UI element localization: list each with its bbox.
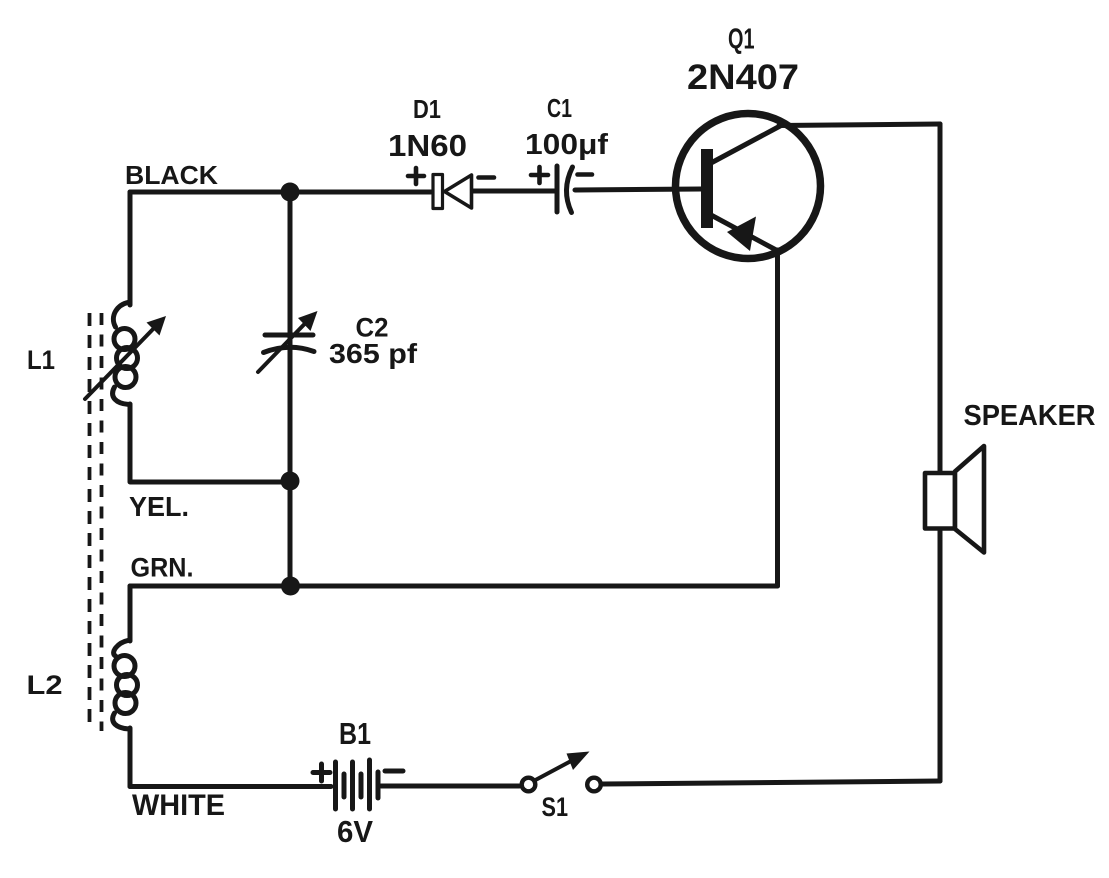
speaker: horn <box>955 446 984 553</box>
svg-text:L2: L2 <box>27 670 63 700</box>
svg-text:BLACK: BLACK <box>125 160 218 190</box>
wire: L2 bottom down to WHITE corner <box>128 728 133 787</box>
svg-text:SPEAKER: SPEAKER <box>964 400 1096 432</box>
battery B1: plate 2 (short) <box>342 774 347 797</box>
wire: C2 branch vertical from BLACK rail down to GRN rail <box>288 192 293 586</box>
transistor Q1 2N407: circle <box>676 114 821 259</box>
wire: BLACK top rail from left corner to diode D1 <box>130 190 431 195</box>
diode D1: minus sign <box>479 175 495 180</box>
transistor Q1: collector stroke <box>711 126 781 164</box>
diode D1: triangle <box>445 175 472 208</box>
tuning arrow through L1 <box>85 316 166 399</box>
wire: GRN rail <box>130 584 778 589</box>
transistor Q1: emitter arrow (PNP) <box>727 217 756 252</box>
battery B1: plus sign <box>313 764 330 781</box>
wire: right vertical rail bottom (corner up to speaker) <box>938 528 943 781</box>
switch S1: right contact circle <box>587 778 601 792</box>
svg-text:C1: C1 <box>547 93 572 123</box>
capacitor C1: plus sign <box>531 167 548 183</box>
battery B1: plate 3 (long) <box>350 762 355 809</box>
svg-text:L1: L1 <box>27 345 55 375</box>
svg-text:365 pf: 365 pf <box>329 338 418 369</box>
node: junction dot on BLACK rail at C2 branch <box>281 183 300 202</box>
svg-text:2N407: 2N407 <box>687 58 799 97</box>
svg-text:Q1: Q1 <box>728 24 755 56</box>
wire: collector rail from Q1 to top right corner <box>779 124 940 126</box>
svg-text:B1: B1 <box>339 716 371 751</box>
capacitor C2 365pf: flat plate <box>265 333 313 338</box>
capacitor C2: curved plate <box>264 347 315 352</box>
svg-text:YEL.: YEL. <box>129 491 189 522</box>
svg-text:1N60: 1N60 <box>388 128 467 163</box>
transistor Q1: emitter stroke <box>711 215 778 251</box>
switch S1: left contact circle <box>522 778 536 792</box>
speaker: voice-coil rectangle <box>925 473 955 529</box>
svg-text:S1: S1 <box>542 792 569 822</box>
node: junction dot YEL / C2 <box>281 472 300 491</box>
capacitor C1 100uf: straight plate <box>555 166 560 212</box>
switch S1: arm arrowhead <box>567 752 590 771</box>
capacitor C1: curved plate <box>566 167 572 213</box>
inductor L1 coil (3 loops) <box>113 302 138 405</box>
wire: right vertical rail top (speaker up to top corner) <box>938 124 943 473</box>
wire: left vertical L1 bottom to YEL corner <box>130 404 290 482</box>
wire: WHITE rail to battery <box>130 784 331 789</box>
inductor L2 coil (3 loops) <box>113 640 138 729</box>
capacitor C1: minus sign <box>578 172 593 177</box>
wire: emitter vertical from Q1 down to GRN rail <box>775 250 780 586</box>
battery B1: plate 5 (long) <box>367 760 372 809</box>
wire: base wire from C1 to Q1 base bar <box>575 189 701 190</box>
battery B1: plate 4 (short) <box>359 774 364 797</box>
wire: battery to switch S1 <box>381 784 520 789</box>
switch S1: arm <box>536 761 573 781</box>
battery B1: plate 1 (long, +) <box>333 762 338 809</box>
wire: switch S1 to bottom right corner <box>603 781 941 784</box>
transistor Q1: base bar <box>701 149 713 228</box>
diode D1 1N60: cathode bar <box>433 175 443 209</box>
wire: left vertical BLACK to L1 top <box>128 192 133 305</box>
wire: left vertical GRN corner down to L2 top <box>128 586 133 641</box>
node: junction dot GRN / C2 <box>281 577 300 596</box>
battery B1: minus sign <box>385 769 403 774</box>
svg-text:6V: 6V <box>337 814 373 849</box>
diode D1: plus sign <box>408 168 424 184</box>
svg-text:WHITE: WHITE <box>132 789 225 822</box>
wire: rail between D1 and C1 <box>474 189 556 194</box>
svg-text:D1: D1 <box>413 94 441 124</box>
svg-text:100μf: 100μf <box>525 129 608 161</box>
capacitor C2: variable arrow <box>258 311 318 372</box>
core: dashed line (right) of L1/L2 slug core <box>100 313 104 731</box>
battery B1: plate 6 (short, -) <box>376 772 381 798</box>
core: dashed line (left) of L1/L2 slug core <box>88 313 92 731</box>
svg-text:GRN.: GRN. <box>131 553 194 583</box>
